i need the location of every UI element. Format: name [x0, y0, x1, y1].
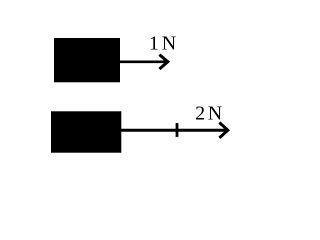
svg-text:2N: 2N: [195, 102, 222, 124]
block M1: [54, 38, 120, 82]
force arrow F2 line: [120, 129, 226, 132]
force arrow F1 head: [159, 55, 167, 69]
svg-text:1N: 1N: [149, 33, 176, 55]
block M2: [51, 111, 121, 152]
force arrow F2 head: [219, 123, 227, 138]
force arrow F1 line: [119, 60, 166, 63]
force arrow F2 tick (1 N division mark): [176, 123, 179, 137]
